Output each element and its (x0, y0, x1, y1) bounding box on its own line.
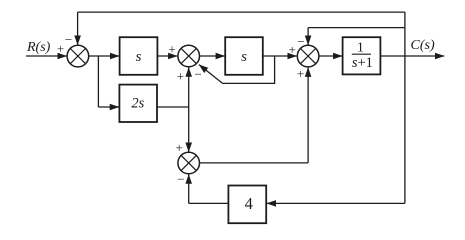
svg-text:+: + (289, 42, 296, 57)
svg-text:−: − (65, 32, 72, 47)
svg-text:+: + (176, 140, 183, 155)
svg-text:−: − (195, 67, 202, 82)
svg-text:s: s (136, 49, 142, 65)
svg-text:+: + (168, 42, 175, 57)
svg-text:R(s): R(s) (26, 40, 51, 55)
svg-text:+: + (297, 66, 304, 81)
svg-text:+: + (177, 68, 184, 83)
svg-text:−: − (297, 34, 304, 49)
svg-text:4: 4 (245, 194, 253, 213)
svg-text:s+1: s+1 (352, 55, 373, 71)
svg-text:2s: 2s (131, 95, 144, 111)
svg-text:C(s): C(s) (411, 38, 435, 53)
svg-text:+: + (57, 41, 64, 56)
svg-text:s: s (241, 49, 247, 65)
svg-text:−: − (177, 171, 184, 186)
svg-text:1: 1 (357, 40, 364, 55)
